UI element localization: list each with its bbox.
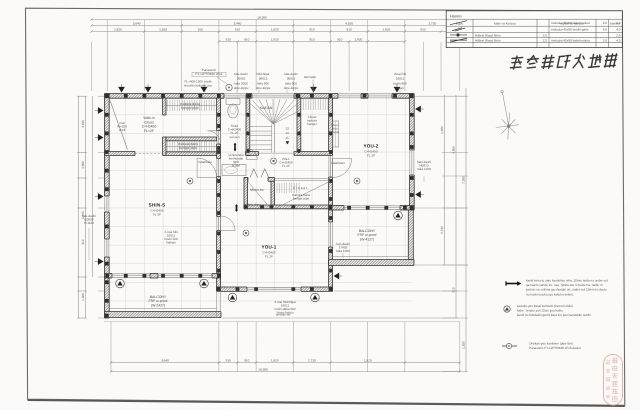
washstand [222, 165, 246, 176]
1F eave outline below balconies [104, 321, 460, 323]
annotation window right [393, 72, 407, 90]
closet diagonal [248, 181, 271, 209]
smoke detectors [187, 178, 193, 184]
bedroom1 bottom wall y=289 [217, 287, 333, 291]
room label toilet [228, 124, 241, 139]
balcony right bottom wall [329, 260, 414, 266]
top dimension rows [90, 16, 461, 43]
label balcony left [149, 295, 168, 307]
hanger pipe ticks hall closet [277, 183, 299, 193]
right extension lines [222, 96, 468, 318]
vent triangles left wall [98, 107, 104, 114]
label hall [279, 157, 292, 168]
bottom dimension rows [110, 359, 461, 373]
window label left wall [82, 214, 96, 225]
room label WIC [142, 116, 157, 133]
left dimension lines [77, 96, 106, 318]
legend table [446, 11, 622, 48]
bottom border shadow [28, 400, 625, 406]
fan symbol [226, 84, 232, 90]
title shourei-juntaika-kouzou [510, 54, 617, 70]
master bedroom bottom wall y=275 [105, 274, 221, 279]
note 2 alarm [504, 304, 591, 317]
toilet fixture [226, 99, 240, 119]
exterior wall right (bedroom2) [410, 94, 415, 211]
label balcony right [358, 229, 377, 241]
vent triangles right wall [415, 106, 421, 113]
wall x=330 bedroom1 right [329, 98, 333, 291]
annotation leader lines [89, 79, 424, 260]
toilet threshold arrow [234, 144, 236, 150]
annotation window 3 [284, 72, 299, 90]
wall post blocks [105, 94, 414, 317]
module grid lines [106, 95, 412, 318]
WIC lower closet [163, 137, 166, 156]
exterior wall left [105, 94, 110, 319]
hanger pipe lower [178, 142, 198, 150]
master bedroom door arc [197, 158, 217, 178]
right dimension lines [440, 88, 468, 372]
label closet R of stair [307, 115, 318, 126]
staircase [250, 99, 297, 153]
balcony right east wall [408, 210, 413, 260]
note 3 fan [502, 342, 581, 350]
north compass star [496, 90, 519, 139]
bedroom2 door arc [333, 159, 352, 178]
extension lines to top dimensions [92, 20, 460, 91]
annotation window 2 [256, 72, 271, 90]
closet sliding door line [275, 178, 331, 180]
exterior wall top [105, 94, 415, 99]
vent triangles top wall [118, 87, 125, 93]
WIC middle shelf dashed [135, 153, 164, 155]
annotation window 1 [234, 72, 249, 90]
window label balcony right [336, 242, 350, 253]
shuunou label bedroom2 [331, 123, 339, 134]
window label bedroom-m bottom [164, 230, 178, 245]
circled vent triangles [116, 279, 125, 288]
hall closet left/divider walls [244, 178, 248, 209]
hanger pipe ticks upper closet [168, 100, 215, 111]
WIC closet stub wall [163, 98, 166, 115]
hall closet bottom wall y=207 [244, 205, 333, 209]
interior bearing wall x=218 [217, 98, 221, 291]
mono-ire threshold arrow [236, 206, 238, 211]
balcony left bottom wall [105, 312, 222, 318]
window label bottom center [274, 300, 296, 315]
bedroom1 door arc [221, 216, 236, 231]
folding door marks closet [250, 169, 269, 178]
note 1 undercut [506, 279, 608, 297]
label naka-dan [117, 121, 127, 132]
toilet door arc (on x3 wall) [208, 131, 221, 144]
bedroom2 storage cabinet [333, 121, 339, 147]
WIC diagonal brace [110, 101, 128, 150]
hanger pipe upper [180, 102, 200, 110]
toilet wall x=247 [246, 98, 250, 156]
hanger pipe ticks stair closet [304, 99, 329, 110]
stair wall x=298 [297, 98, 301, 152]
stair entry threshold line [259, 152, 295, 154]
stair-hall wall y=152 [246, 152, 259, 156]
washstand labels [228, 153, 243, 168]
red approval stamp [604, 355, 623, 406]
hall closet top wall y=178 [244, 178, 248, 182]
annotation panasonic fan [195, 68, 223, 76]
balcony left right edge [216, 291, 218, 318]
WIC bottom wall [105, 152, 136, 156]
hanger pipe ticks lower closet [168, 142, 215, 152]
window label right sweep [417, 160, 431, 171]
extension lines to bottom dimensions [111, 322, 460, 372]
washroom door arc [246, 149, 257, 160]
bedroom2 bottom wall / balcony R top y=207 [329, 206, 414, 211]
